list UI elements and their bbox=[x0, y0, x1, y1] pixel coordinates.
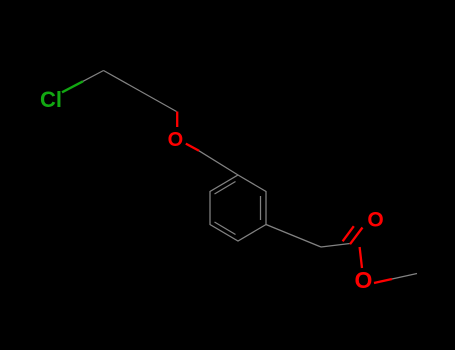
C=O double bond main bbox=[350, 228, 363, 245]
bond O-CH3 red half bbox=[374, 279, 392, 283]
chain C-C bond 2 bbox=[140, 91, 177, 112]
C-O single bond bbox=[360, 247, 362, 268]
bond O-CH3 gray half bbox=[392, 274, 417, 280]
ring inner double bond top-left bbox=[215, 182, 236, 195]
svg-text:O: O bbox=[367, 208, 383, 231]
bond O-ring red half bbox=[186, 144, 199, 151]
bond C-O red stub bbox=[176, 112, 178, 128]
bond Cl-C green half bbox=[62, 81, 83, 92]
benzene ring bbox=[210, 175, 266, 241]
ring inner double bond bottom-left bbox=[215, 222, 236, 235]
chain C-C bond bbox=[104, 71, 141, 92]
bond O-ring gray half bbox=[199, 151, 238, 175]
svg-text:O: O bbox=[354, 267, 372, 293]
bond Cl-C gray half bbox=[83, 71, 104, 82]
ring inner double bond right bbox=[260, 196, 262, 220]
chain ring-CH2 bbox=[266, 225, 321, 248]
svg-text:Cl: Cl bbox=[40, 87, 62, 112]
svg-text:O: O bbox=[168, 129, 184, 151]
C=O double bond tick bbox=[343, 226, 354, 241]
chain CH2-C bbox=[321, 244, 350, 248]
